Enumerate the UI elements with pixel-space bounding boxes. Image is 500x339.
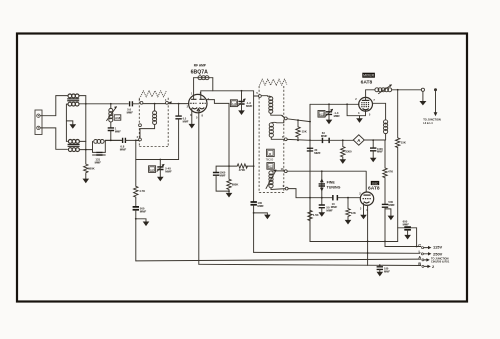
junction dot [228,190,230,192]
svg-text:4.7K: 4.7K [139,189,145,193]
capacitor 30 MMF (on riser) [307,148,321,155]
contact 4 [166,101,169,104]
capacitor 1 MMF (below A18) [108,127,122,141]
svg-text:A18: A18 [115,116,121,120]
adjustable oscillator coil (top) [375,84,421,93]
capacitor 63 MMF (series in W2) [321,131,330,143]
capacitor 500 MMF (osc B+ bypass) [382,178,395,241]
svg-text:MMF: MMF [115,130,121,134]
svg-text:MMF: MMF [314,151,321,155]
svg-text:12K: 12K [351,211,356,215]
capacitor 500 MMF (below 4.7K) [133,198,147,261]
svg-text:MMF: MMF [403,222,410,226]
B+ column from plate bus down [253,91,255,202]
heater bus [199,264,421,265]
contact 2 (box1 lower left) [139,138,142,141]
tuner strip box 2 (dashed) [259,86,284,193]
junction dot [135,140,137,142]
wire antenna bottom terminal to T2 [40,128,67,149]
ground (between input transformers) [70,121,77,129]
ground (osc cathode) [360,203,367,219]
wire pin7 (screen) to A16 corner, down to divider [206,100,229,167]
capacitor 0.5 MMF (grid series) [136,104,189,160]
contact (box1 left, coil return) [139,124,142,127]
capacitor 180 MMF (heater bypass) [377,267,391,277]
wire T1 right leads / vertical x=85.8 [79,96,86,164]
junction dot [85,103,87,105]
svg-text:TUNING: TUNING [327,186,341,190]
svg-text:C96,R50 & R51: C96,R50 & R51 [431,260,450,264]
wire through box1 to RF grid [143,103,189,105]
wire pin6 stub [200,91,202,99]
svg-text:MMF: MMF [377,150,383,154]
junction dot (12K tap) [347,197,349,199]
wire antenna top terminal to T1 primary [40,96,67,116]
wire 1.5K down to 115V feed line [309,222,311,242]
svg-text:A16: A16 [232,103,237,106]
junction dot (feedback tap) [346,103,348,105]
resistor 15K (between W1 and W2) [296,120,300,140]
capacitor 5.6 MMF (series in antenna lead) [127,101,139,114]
contact 9 [285,187,288,190]
svg-text:680K: 680K [232,183,239,187]
svg-text:MMF: MMF [140,209,147,213]
mixer plate wire right and IF coil [373,103,386,120]
junction dot (1000MMF tap) [372,139,374,141]
junction dot (A13 tap) [159,159,161,161]
svg-text:3300: 3300 [345,150,352,154]
wire W2: contact7 to diamond A [287,138,353,141]
svg-text:B: B [418,261,421,266]
OSC label [371,181,379,185]
tube 6BQ7A RF amplifier [187,91,210,120]
capacitor 6.8 MMF [120,138,139,152]
strip coil zigzag (box 1 top) [141,91,167,97]
contact 10 [284,170,287,173]
svg-text:78C00: 78C00 [266,157,274,161]
svg-text:A: A [418,255,421,260]
AGC bus [136,259,421,261]
junction dot [110,140,112,142]
terminal L [419,249,443,256]
transformer T2 (bottom input transformer) [68,140,80,152]
svg-text:A13: A13 [150,169,155,172]
svg-text:1.5K: 1.5K [313,213,319,217]
capacitor 100 MMF (plate bypass) [251,201,265,252]
junction dot (15K drop) [397,89,399,91]
grid-return wire (y=140.4) with 6.8 MMF [105,139,121,141]
mixer grid riser x=310 (W1 up to grid wire, down through caps) [310,104,398,241]
250V bus [254,251,420,254]
junction dot (A16 trimmer tap) [241,90,243,92]
resistor 680K [84,164,88,175]
svg-text:MIXER: MIXER [363,74,374,78]
svg-text:MMF: MMF [127,111,134,115]
junction dot [228,165,230,167]
resistor 680K (screen divider) [227,166,231,191]
antenna terminal strip [35,110,42,135]
wire T1 secondary left down to ground [66,104,72,121]
test point diamond A [353,135,364,145]
svg-text:15K: 15K [302,129,307,133]
terminal A [418,255,450,264]
115V collector line (y=241.4) junction dots [367,241,369,243]
wire 15K down to 115V feed [397,148,399,242]
wire tee to contact 5 [254,95,259,97]
junction dot (15K bottom) [297,139,299,141]
wire W1: contact4 to mixer-grid riser [287,119,310,122]
svg-text:MMF: MMF [246,104,253,108]
box label M [267,149,275,156]
osc/RF coil L-C1 [261,96,284,118]
mixer plate stem up to osc coil [366,90,375,101]
junction dot (cap 180 tap) [379,264,381,266]
box label A18 [114,115,121,120]
terminal B [418,261,435,269]
svg-text:MMF: MMF [326,208,333,212]
wiper arrow at contact 4 [169,101,172,103]
heater column down to bus [198,111,200,265]
resistor 3300 [341,140,345,157]
wire 600MMF to C line [416,228,418,247]
capacitor 1000 MMF (screen bypass) [213,166,229,191]
junction dot (100MMF ground tee) [253,212,255,214]
svg-text:680K: 680K [88,166,95,170]
box label A15 [318,111,325,118]
wire injection column: 47K chain [384,140,386,168]
oscillator coil C3 (adjustable) [266,169,285,189]
wire contact 9 to osc grid line [288,189,332,198]
plug terminal (to ant) [419,88,426,105]
svg-text:6AT8: 6AT8 [368,185,380,191]
box label A16 [230,100,237,107]
svg-text:FINE: FINE [327,181,336,185]
ground (plate bypass) [254,213,271,219]
heater column (osc) down to bus [367,205,369,265]
wire pin1 stub [193,78,195,100]
svg-text:15K: 15K [401,140,406,144]
trimmer capacitor .1-3 MMF (neutralizer) [238,91,252,115]
osc plate line from contact 10 [287,171,366,192]
plate peaking coil (above 6BQ7A) [194,76,213,80]
junction dot (A15 tap) [328,103,330,105]
ground (below 680K) [83,175,90,184]
junction dot [416,246,418,248]
junction dot (ground tee) [135,218,137,220]
capacitor 50 MMF [319,198,334,217]
schematic border frame [17,34,467,302]
RF plate bus wire [201,90,254,92]
ground (AGC filter) [136,219,150,226]
svg-text:MMF: MMF [321,134,328,138]
resistor 12K [346,198,350,218]
tuner strip box 1 (dashed) [139,98,168,147]
svg-text:MMF: MMF [388,203,395,207]
mixer grid wire [310,103,359,105]
svg-text:47K: 47K [388,170,393,174]
screen divider wire to B+ column [229,165,254,167]
svg-text:6AT8: 6AT8 [361,79,373,85]
ground (500MMF tee) [385,209,394,220]
svg-text:MMF: MMF [95,161,102,165]
junction dot (fine tuning tap) [321,170,323,172]
svg-text:MMF: MMF [183,120,189,124]
contact 4 (box2) [284,117,287,120]
junction dot (box1 coil tap) [154,103,156,105]
wire diamond to osc injection column [364,139,385,141]
svg-text:6BQ7A: 6BQ7A [191,69,209,75]
contact 3 [140,101,143,104]
cable terminal to junction L3 & L4 [423,88,441,125]
resistor 47K [383,168,387,178]
svg-text:OSC: OSC [372,181,379,185]
wire coil right to plate bus [212,78,214,91]
svg-text:A12: A12 [268,166,273,169]
resistor 4.7K [134,186,138,198]
wire jog down to C terminal line [385,241,421,246]
svg-text:115V: 115V [433,244,442,249]
junction dot (15K top) [297,119,299,121]
wire T2 right leads [79,141,92,149]
svg-text:MMF: MMF [334,114,341,118]
MIXER label [362,73,375,78]
svg-text:MMF: MMF [220,173,226,177]
junction dot [253,165,255,167]
wire tank top to grid line [105,140,122,141]
svg-text:RF AMP: RF AMP [194,63,207,67]
ground (3300) [340,157,347,164]
svg-text:MMF: MMF [257,204,264,208]
capacitor 1000 MMF (injection bypass) [370,140,383,162]
svg-text:A15: A15 [319,114,324,117]
tank circuit L/C 131 MMF [93,140,106,165]
junction dot (W2 cross) [309,139,311,141]
terminal C [418,242,442,249]
svg-text:250V: 250V [433,251,443,256]
trimmer capacitor 5-45 MMF [157,160,172,182]
resistor 15K (right column) [396,90,400,148]
junction dot (1.5K tap) [309,197,311,199]
box label A12 [267,163,274,170]
mixer cathode return loop [347,104,365,115]
tube 6AT8 oscillator (triode section) [359,192,373,213]
wire grid-return feeder column x=135.8 [135,140,137,186]
resistor 1.5K (osc grid leak) [308,198,312,222]
junction dot [367,252,369,254]
fine tuning variable capacitor [319,171,325,197]
svg-text:L3 & L4: L3 & L4 [423,121,433,125]
ground (mixer cathode) [356,116,363,123]
ground (screen divider) [226,191,233,197]
svg-text:C: C [418,242,421,247]
svg-text:MMF: MMF [165,169,172,173]
junction dot [85,149,87,151]
tube 6AT8 mixer (pentode section) [355,97,375,117]
junction dot (W1 tee) [309,121,311,123]
junction dot (grid cap tap) [178,103,180,105]
box1 channel coil [140,104,157,138]
svg-text:MMF: MMF [120,148,127,152]
wire contact2 to grid-return [137,139,139,141]
junction dot (50MMF tap) [321,197,323,199]
ground (12K) [345,217,352,224]
junction dot (3300 tap) [342,139,344,141]
capacitor 600 MMF [398,219,417,239]
transformer T1 (top input transformer) [67,94,79,106]
main antenna lead wire (top) [79,103,128,105]
resistor 470K (horizontal) [237,164,247,168]
junction dot (A18 tap) [110,103,112,105]
box label A13 [149,166,156,173]
capacitor 10 MMF (osc grid series) [331,195,361,209]
svg-text:MMF: MMF [331,205,338,209]
trimmer capacitor 1-3 MMF (mixer grid) [326,104,341,124]
IF output coil [384,120,388,140]
svg-text:MMF: MMF [384,270,390,274]
variable inductor A18 [107,104,117,128]
coil C2 [269,120,284,140]
svg-text:470K: 470K [239,168,246,172]
strip coil zigzag (box 2 top) [260,79,287,85]
contact 5 [259,95,262,98]
ground (RF cathode) [189,108,196,128]
wire ground column down to T2 primary left [66,121,67,141]
contact 7 [284,138,287,141]
